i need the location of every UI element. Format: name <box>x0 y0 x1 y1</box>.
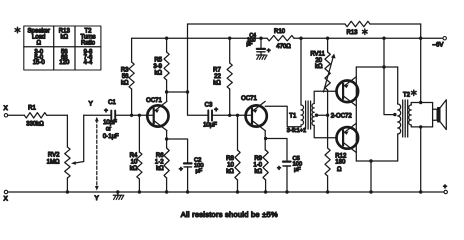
wire: emitter bus bottom y=161 <box>356 159 397 193</box>
table: speaker load / R13 / T2 ratio <box>15 26 101 70</box>
resistor R3 56k <box>121 38 134 117</box>
svg-text:All resistors should be ±5%: All resistors should be ±5% <box>181 210 278 219</box>
svg-text:T2: T2 <box>403 93 411 99</box>
wire: filtered supply rail y=38.2 <box>132 37 421 39</box>
ground on bottom rail <box>113 190 124 199</box>
svg-text:kΩ: kΩ <box>130 166 138 172</box>
svg-text:+: + <box>104 108 108 115</box>
wire: Q2 collector to T1 primary <box>265 106 301 127</box>
svg-text:R10: R10 <box>274 29 286 35</box>
svg-text:2-OC72: 2-OC72 <box>331 114 353 120</box>
svg-text:C3: C3 <box>205 103 213 109</box>
svg-text:10: 10 <box>227 163 234 169</box>
wire: output pair common vertical <box>355 67 357 161</box>
svg-text:RV11: RV11 <box>310 52 325 58</box>
svg-text:kΩ: kΩ <box>121 80 129 86</box>
terminal X top-left <box>4 105 9 117</box>
wire: T1 center tap to bias node <box>315 114 330 117</box>
potentiometer RV11 20k <box>310 37 335 116</box>
svg-text:RV2: RV2 <box>48 153 60 159</box>
capacitor C1 10uF <box>84 100 154 140</box>
svg-text:+: + <box>214 107 218 114</box>
svg-text:1MΩ: 1MΩ <box>47 159 60 165</box>
svg-text:1·2: 1·2 <box>155 160 164 166</box>
svg-text:+: + <box>443 183 447 190</box>
svg-text:10μF: 10μF <box>203 123 217 129</box>
svg-text:R1: R1 <box>28 105 36 111</box>
svg-text:Y: Y <box>89 100 94 107</box>
svg-text:μF: μF <box>294 167 301 173</box>
capacitor C4 100uF decoupling <box>246 33 270 54</box>
svg-text:kΩ: kΩ <box>226 169 234 175</box>
ground below C4 <box>257 52 268 60</box>
svg-text:22: 22 <box>214 74 221 80</box>
svg-text:R9: R9 <box>254 156 262 162</box>
svg-text:T1: T1 <box>289 113 297 119</box>
transistor OC71 Q2 <box>241 96 267 131</box>
svg-text:Ω: Ω <box>36 41 41 47</box>
capacitor C5 100uF <box>266 139 302 194</box>
svg-text:R5: R5 <box>154 58 162 64</box>
label 2-OC72 <box>331 114 353 120</box>
svg-text:X: X <box>4 196 9 203</box>
svg-text:4·4: 4·4 <box>84 60 93 66</box>
transformer T2 <box>398 67 416 161</box>
svg-text:R7: R7 <box>213 68 221 74</box>
svg-text:3·9: 3·9 <box>153 64 162 70</box>
resistor R10 470 ohm <box>267 29 294 50</box>
wire: bottom common rail <box>8 191 444 193</box>
svg-text:or: or <box>106 127 111 133</box>
svg-text:56: 56 <box>122 74 129 80</box>
resistor R1 330k <box>8 105 68 127</box>
resistor R12 180 ohm <box>325 115 347 194</box>
potentiometer RV2 1M <box>47 115 84 193</box>
svg-text:kΩ: kΩ <box>213 80 221 86</box>
wire: T1 secondary top to Q3 base <box>314 91 336 103</box>
svg-text:μF: μF <box>246 41 252 47</box>
svg-text:kΩ: kΩ <box>155 70 163 76</box>
wire: T2 secondary to speaker bottom <box>411 125 432 129</box>
speaker LS <box>433 100 447 130</box>
svg-text:kΩ: kΩ <box>61 34 69 40</box>
node: Q1 collector to feedback link <box>165 90 188 93</box>
capacitor C2 100uF <box>167 139 204 194</box>
svg-text:1·0: 1·0 <box>253 163 262 169</box>
wire: T2 secondary to speaker top <box>411 101 432 105</box>
wire: feedback rail y=24 with corners <box>188 23 421 25</box>
wire: right drop of rails to -6V / T2 <box>419 24 422 103</box>
resistor R4 10k <box>130 114 142 194</box>
svg-text:120: 120 <box>59 60 70 66</box>
svg-text:10: 10 <box>131 160 138 166</box>
op point: OC71 Q1 <box>146 98 168 131</box>
svg-text:0·1μF: 0·1μF <box>103 134 119 140</box>
svg-text:15·0: 15·0 <box>33 60 46 66</box>
transformer T1 3.5:1+1 <box>287 37 314 134</box>
svg-text:kΩ: kΩ <box>156 166 164 172</box>
terminal + bottom right <box>443 183 447 193</box>
resistor R9 1.0k <box>253 131 268 194</box>
svg-text:+: + <box>179 166 183 173</box>
resistor R7 22k <box>213 37 232 118</box>
svg-text:R13: R13 <box>346 30 358 36</box>
svg-text:X: X <box>4 105 9 112</box>
wire: speaker bottom to + rail <box>419 127 422 194</box>
svg-text:Ω: Ω <box>337 167 342 173</box>
terminal -6V <box>421 37 447 49</box>
wire: T1 secondary bottom to Q4 base <box>314 126 336 138</box>
svg-text:kΩ: kΩ <box>255 169 263 175</box>
svg-text:–6V: –6V <box>433 42 444 48</box>
svg-text:10μF: 10μF <box>103 120 117 126</box>
svg-text:R3: R3 <box>121 68 129 74</box>
svg-text:Ratio: Ratio <box>81 41 96 47</box>
svg-text:R4: R4 <box>130 153 138 159</box>
transistor OC72 Q3 <box>337 77 359 106</box>
svg-text:Y: Y <box>95 195 100 202</box>
svg-text:OC71: OC71 <box>241 96 257 102</box>
resistor R13 (feedback) <box>345 21 370 36</box>
svg-text:OC71: OC71 <box>146 98 162 104</box>
svg-text:180: 180 <box>335 159 346 165</box>
svg-text:R8: R8 <box>226 156 234 162</box>
terminal X bottom <box>4 190 9 202</box>
svg-text:Load: Load <box>32 34 45 40</box>
resistor R6 1.2k <box>155 131 169 194</box>
wire: collector bus top y=67 <box>356 65 397 68</box>
capacitor C3 10uF coupling <box>188 92 253 129</box>
resistor R8 10k <box>226 114 240 194</box>
wire: supply to T2 centre tap <box>382 37 396 117</box>
transistor OC72 Q4 <box>337 123 359 152</box>
section marker Y (dashed) <box>89 100 100 202</box>
svg-text:+: + <box>267 48 271 55</box>
svg-text:μF: μF <box>196 169 203 175</box>
svg-text:Turns: Turns <box>80 34 95 40</box>
svg-text:470Ω: 470Ω <box>276 44 291 50</box>
wire: left drop of feedback rail to Q1 collector node <box>186 24 189 94</box>
svg-text:3·5:1+1: 3·5:1+1 <box>287 128 306 134</box>
svg-text:330kΩ: 330kΩ <box>26 122 44 128</box>
resistor R5 3.9k <box>153 37 169 102</box>
svg-text:20: 20 <box>315 58 322 64</box>
svg-text:+: + <box>277 165 281 172</box>
svg-text:C1: C1 <box>108 100 116 106</box>
svg-text:kΩ: kΩ <box>315 64 323 70</box>
svg-text:R6: R6 <box>156 153 164 159</box>
caption note <box>181 210 278 219</box>
